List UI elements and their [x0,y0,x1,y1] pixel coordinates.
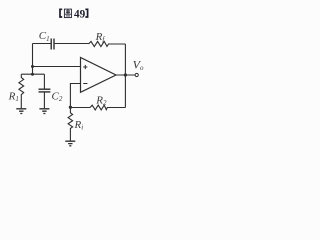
svg-text:C1: C1 [39,30,50,43]
svg-text:R1: R1 [8,91,19,104]
svg-text:C2: C2 [52,90,63,103]
svg-text:Ri: Ri [74,119,84,132]
svg-text:49: 49 [74,8,86,20]
svg-text:R2: R2 [95,95,107,108]
svg-text:Rf: Rf [95,31,106,44]
svg-text:Vo: Vo [133,58,144,72]
